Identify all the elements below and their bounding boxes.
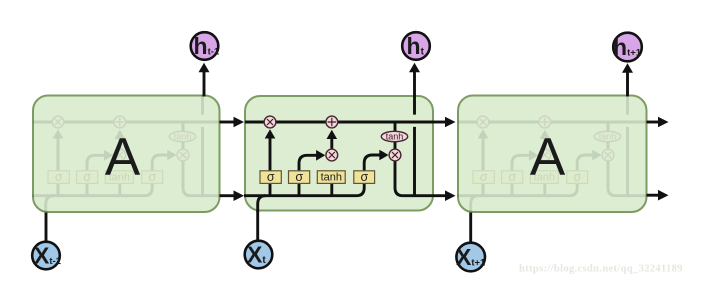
svg-text:https://blog.csdn.net/qq_32241: https://blog.csdn.net/qq_32241189 [519,264,683,275]
svg-text:A: A [530,128,566,187]
svg-text:A: A [105,128,141,187]
